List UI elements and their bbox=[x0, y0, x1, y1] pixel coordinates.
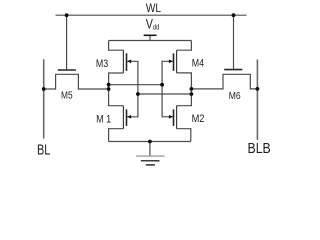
svg-text:WL: WL bbox=[146, 2, 161, 15]
svg-text:M2: M2 bbox=[192, 113, 205, 125]
svg-text:dd: dd bbox=[153, 24, 160, 32]
svg-text:BL: BL bbox=[37, 142, 50, 158]
svg-text:M6: M6 bbox=[229, 89, 241, 101]
svg-text:M4: M4 bbox=[192, 58, 205, 70]
svg-text:M3: M3 bbox=[96, 58, 109, 70]
svg-text:M5: M5 bbox=[61, 90, 73, 101]
svg-text:BLB: BLB bbox=[248, 140, 271, 156]
svg-text:M 1: M 1 bbox=[96, 114, 111, 126]
